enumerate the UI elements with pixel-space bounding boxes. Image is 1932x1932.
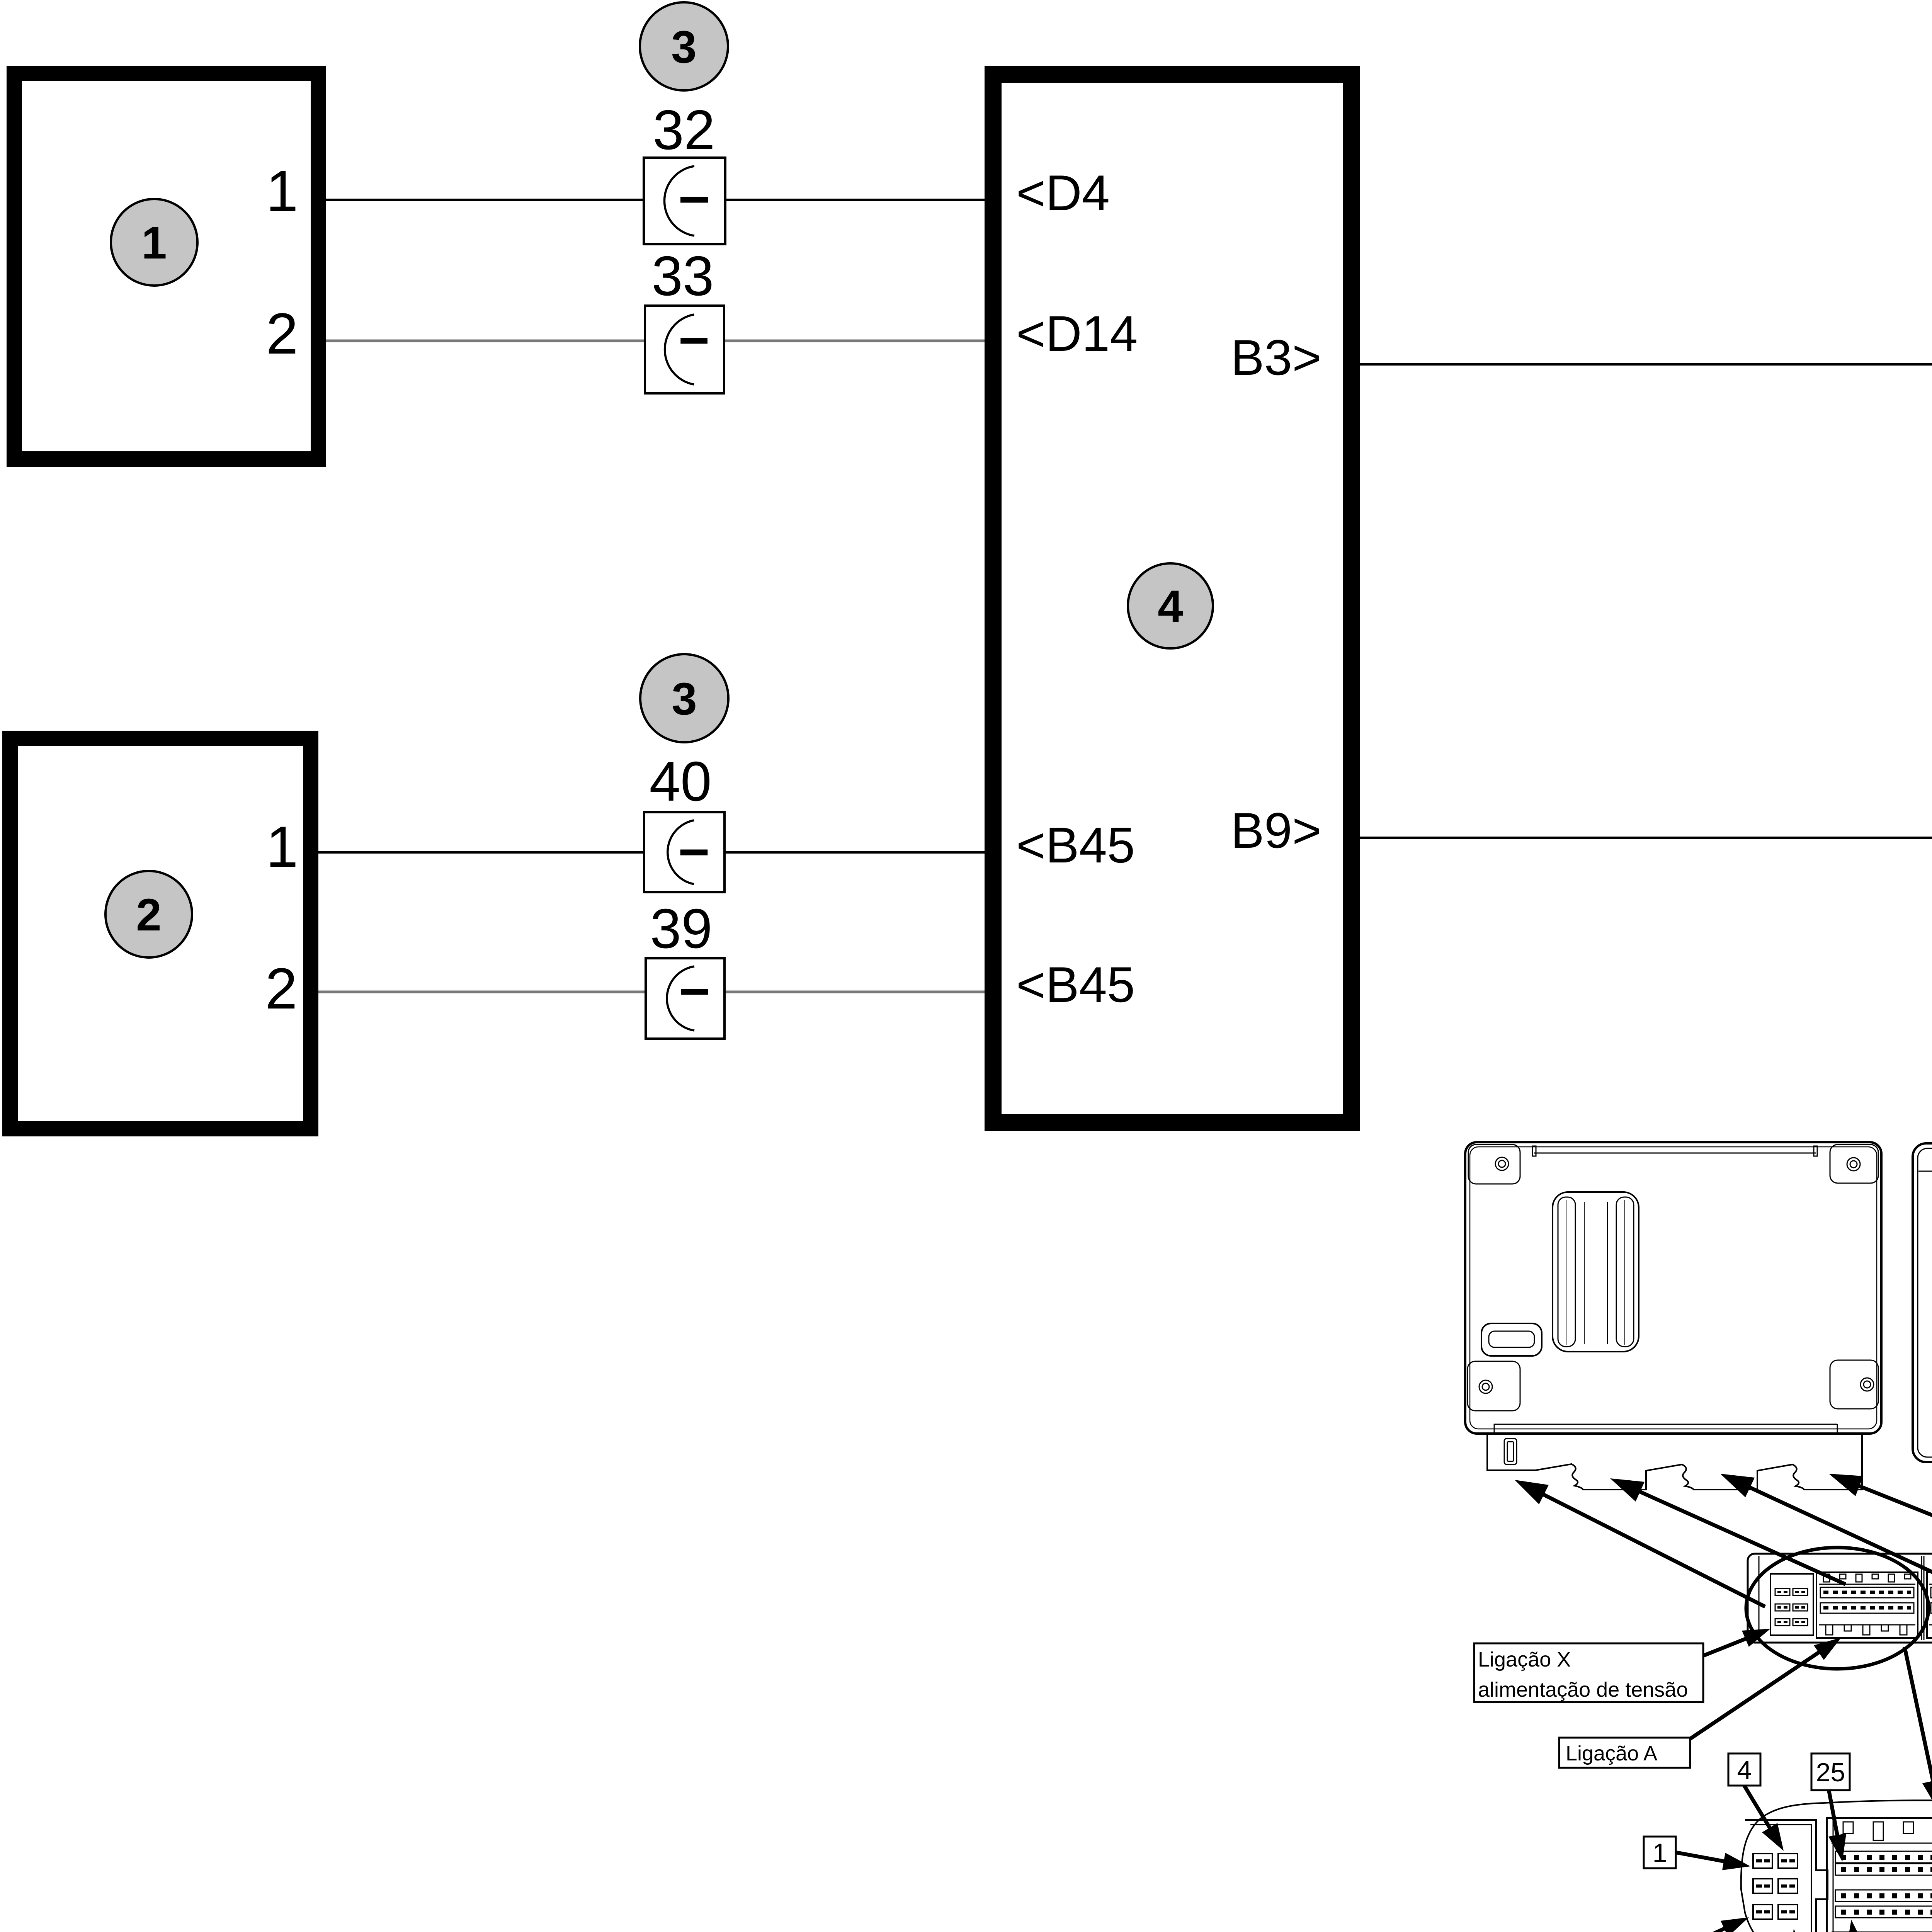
enlarged connector tear-out outline [1741,1800,1932,1932]
svg-text:1: 1 [141,218,167,269]
connector separation point 32 [644,99,725,244]
svg-text:3: 3 [672,673,697,724]
wire U4 B3 to U5 B6 [1360,363,1932,366]
svg-text:2: 2 [136,889,162,940]
connector separation point 39 [646,897,724,1039]
arrow callout 4 to pin [1744,1786,1784,1851]
arrow ellipse to enlarged view [1905,1647,1932,1813]
pin label B45 (second) [1016,956,1135,1013]
arrow X connector to foot 1 [1515,1480,1765,1607]
enlarged X connector with power pins [1745,1820,1828,1932]
svg-text:2: 2 [266,301,298,366]
harness label circle 3 (lower) [640,654,728,742]
svg-text:40: 40 [649,750,711,813]
svg-text:B9>: B9> [1231,802,1321,859]
callout pin 1 (X top-left) [1644,1837,1676,1868]
ECU back central mounting rail [1553,1192,1639,1352]
pin 1 label of device 2 [266,814,298,879]
svg-text:<D14: <D14 [1016,305,1138,362]
ECU back view housing outline [1465,1142,1881,1434]
arrow C connector to foot 4 [1829,1474,1932,1570]
svg-text:<B45: <B45 [1016,817,1135,873]
pin label D14 [1016,305,1138,362]
arrow Ligacao X to X block [1703,1629,1770,1656]
svg-text:4: 4 [1737,1755,1752,1785]
svg-text:<B45: <B45 [1016,956,1135,1013]
connector A block (side view) [1816,1572,1918,1638]
wire device2 pin1 to U4 B45 [318,851,985,854]
svg-text:3: 3 [671,22,697,73]
device box 2 [10,738,311,1129]
svg-text:alimentação de tensão: alimentação de tensão [1478,1678,1688,1701]
svg-text:1: 1 [1653,1838,1667,1867]
arrow callout 1b to pin [1847,1920,1864,1932]
svg-text:<D4: <D4 [1016,165,1110,221]
enlarged A connector with pin rows [1827,1818,1932,1932]
wire device1 pin2 to U4 D14 [326,340,985,342]
arrow Ligacao A to A block [1690,1638,1841,1739]
ECU back plate clip detail [1504,1439,1517,1464]
device box 1 [14,73,318,459]
ECU back screw boss bottom-left [1468,1361,1520,1411]
ECU back screw boss top-left [1468,1145,1520,1184]
ECU back bottom mounting plate with feet [1487,1434,1862,1490]
svg-text:32: 32 [653,99,715,161]
arrow callout 25 to pin [1828,1790,1846,1862]
node label circle 4 [1128,563,1213,648]
node label circle 1 [111,199,197,286]
arrow callout 6 to pin [1791,1929,1808,1932]
svg-text:25: 25 [1816,1758,1845,1787]
connector separation point 40 [644,750,724,892]
ECU back left latch feature [1481,1323,1542,1356]
callout pin 4 (X top-right) [1728,1753,1760,1786]
pin 2 label of device 2 [265,956,297,1021]
svg-text:B3>: B3> [1231,329,1321,386]
wire device2 pin2 to U4 B45 [318,991,985,993]
strip divider A-B [1922,1556,1924,1640]
connector strip housing [1748,1554,1932,1643]
svg-text:2: 2 [265,956,297,1021]
connector B block (side view) [1927,1572,1932,1638]
svg-text:33: 33 [651,245,714,307]
pin label D4 [1016,165,1110,221]
svg-text:39: 39 [650,897,712,960]
pin 1 label of device 1 [266,158,298,223]
control unit box 4 [993,74,1352,1122]
label Ligacao A box [1559,1738,1690,1768]
ECU back screw boss bottom-right [1830,1360,1878,1409]
ECU back screw boss top-right [1830,1145,1878,1183]
svg-text:Ligação X: Ligação X [1478,1648,1571,1671]
ellipse around X and A connectors [1746,1548,1929,1669]
connector X block (side view) [1770,1574,1813,1635]
arrow callout 1 to pin [1676,1852,1750,1870]
ECU bottom view housing outline [1913,1143,1932,1462]
svg-text:1: 1 [266,814,298,879]
connector separation point 33 [645,245,724,393]
pin label B3 [1231,329,1321,386]
pin label B9 [1231,802,1321,859]
pin 2 label of device 1 [266,301,298,366]
arrow callout 3 to pin [1669,1917,1749,1932]
label Ligacao X box [1474,1643,1703,1702]
svg-text:4: 4 [1158,581,1183,632]
arrow B connector to foot 3 [1720,1474,1932,1580]
arrow A connector to foot 2 [1610,1478,1845,1584]
svg-text:Ligação A: Ligação A [1566,1742,1657,1765]
node label circle 2 [105,871,192,957]
wire U4 B9 to U5 B18 [1360,837,1932,839]
harness label circle 3 (upper) [640,2,728,90]
wire device1 pin1 to U4 D4 [326,199,985,201]
svg-text:1: 1 [266,158,298,223]
pin label B45 (first) [1016,817,1135,873]
callout pin 25 (A row) [1811,1753,1850,1790]
